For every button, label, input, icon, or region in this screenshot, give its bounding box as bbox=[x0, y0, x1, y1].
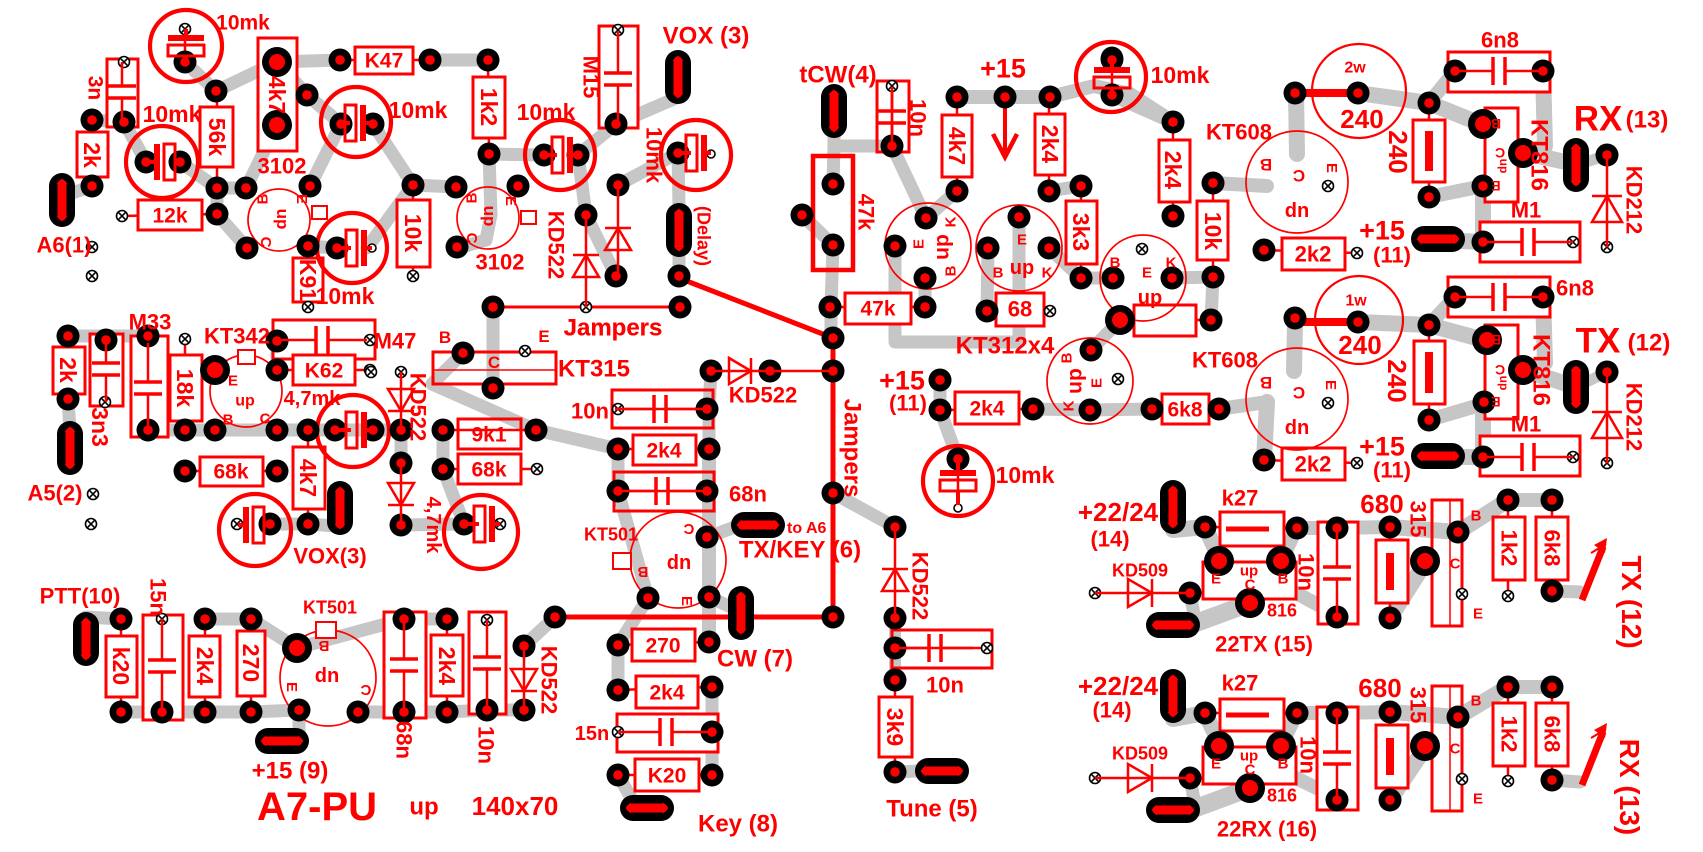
wire bbox=[673, 252, 686, 276]
svg-text:+15: +15 bbox=[980, 53, 1026, 83]
wire bbox=[834, 126, 892, 146]
svg-text:240: 240 bbox=[1382, 359, 1412, 402]
pad +22/24(14) bbox=[1160, 669, 1186, 723]
base mark 3102 bbox=[312, 206, 327, 219]
pad bbox=[110, 701, 133, 724]
pad bbox=[266, 419, 289, 442]
pad bbox=[1039, 86, 1062, 109]
fuse k27 bbox=[1220, 699, 1284, 731]
hole bbox=[1090, 588, 1101, 599]
wire bbox=[1296, 93, 1297, 154]
component lead bbox=[618, 408, 707, 411]
svg-text:680: 680 bbox=[1360, 489, 1403, 519]
component lead bbox=[956, 97, 959, 191]
svg-text:E: E bbox=[910, 239, 927, 249]
pad bbox=[432, 419, 455, 442]
pad bbox=[1326, 789, 1349, 812]
component lead bbox=[1551, 500, 1554, 591]
pad bbox=[994, 86, 1017, 109]
svg-text:KD522: KD522 bbox=[729, 383, 797, 408]
resistor 2k4 bbox=[189, 636, 220, 697]
pad bbox=[1497, 676, 1520, 699]
svg-text:up: up bbox=[315, 666, 339, 688]
pad bbox=[200, 355, 230, 385]
pad bbox=[266, 330, 289, 353]
svg-text:C: C bbox=[360, 681, 371, 698]
svg-text:68k: 68k bbox=[213, 460, 248, 483]
wire bbox=[578, 155, 586, 215]
pad bbox=[533, 144, 556, 167]
pad bbox=[205, 80, 228, 103]
component lead bbox=[1428, 325, 1431, 420]
svg-text:K: K bbox=[1042, 264, 1053, 281]
wire bbox=[148, 424, 373, 437]
capacitor 15n bbox=[143, 615, 183, 720]
pad bbox=[419, 49, 442, 72]
svg-text:up: up bbox=[1285, 201, 1309, 223]
resistor 9k1 bbox=[458, 419, 521, 449]
resistor 18k bbox=[170, 355, 202, 421]
pad bbox=[1101, 47, 1124, 72]
svg-text:6n8: 6n8 bbox=[1481, 28, 1519, 53]
pad bbox=[1286, 517, 1309, 540]
resistor 12k bbox=[138, 200, 202, 230]
pad bbox=[607, 174, 630, 197]
pad bbox=[174, 51, 197, 74]
svg-text:1w: 1w bbox=[1345, 293, 1367, 310]
pad bbox=[194, 701, 217, 724]
svg-text:3102: 3102 bbox=[258, 154, 307, 179]
hole bbox=[1457, 589, 1468, 600]
fuse k27 bbox=[1220, 512, 1284, 546]
capacitor symbol bbox=[486, 620, 489, 657]
hole bbox=[1090, 773, 1101, 784]
svg-text:C: C bbox=[1245, 576, 1256, 593]
wire bbox=[1429, 186, 1483, 197]
svg-text:240: 240 bbox=[1340, 104, 1383, 134]
pad bbox=[1508, 355, 1538, 385]
wire bbox=[1552, 780, 1580, 782]
component lead bbox=[617, 30, 620, 124]
svg-text:k27: k27 bbox=[1222, 671, 1259, 696]
hole bbox=[532, 464, 543, 475]
hole bbox=[982, 643, 993, 654]
component lead bbox=[105, 340, 106, 402]
component lead bbox=[91, 120, 94, 186]
svg-text:M1: M1 bbox=[1511, 412, 1542, 437]
diode KD212 bbox=[1592, 412, 1622, 438]
capacitor 10n bbox=[877, 81, 909, 152]
svg-text:B: B bbox=[463, 192, 480, 203]
hole bbox=[495, 519, 506, 530]
svg-text:6k8: 6k8 bbox=[1539, 716, 1564, 753]
svg-text:680: 680 bbox=[1358, 673, 1401, 703]
pad bbox=[174, 419, 197, 442]
svg-text:VOX (3): VOX (3) bbox=[663, 22, 750, 49]
resistor 680 body bbox=[1386, 553, 1394, 590]
svg-text:TX: TX bbox=[1576, 321, 1621, 360]
wire bbox=[86, 617, 121, 619]
pad RX(13) bbox=[1563, 138, 1589, 192]
pad bbox=[1253, 449, 1276, 472]
wire bbox=[586, 215, 616, 276]
wire bbox=[1390, 563, 1425, 618]
svg-text:22RX (16): 22RX (16) bbox=[1217, 817, 1317, 842]
transistor 816 bbox=[1203, 747, 1296, 784]
component lead bbox=[1048, 97, 1051, 191]
hole bbox=[1457, 774, 1468, 785]
hole bbox=[581, 302, 592, 313]
pad bbox=[1284, 82, 1307, 105]
svg-text:2k4: 2k4 bbox=[646, 439, 681, 462]
pad bbox=[822, 327, 845, 350]
svg-text:3k9: 3k9 bbox=[882, 708, 908, 746]
svg-text:A5(2): A5(2) bbox=[27, 481, 82, 506]
pad bbox=[1508, 138, 1538, 168]
pad bbox=[1070, 175, 1093, 198]
svg-text:E: E bbox=[1142, 264, 1152, 281]
resistor 2k4 bbox=[636, 676, 698, 708]
component lead bbox=[443, 429, 536, 432]
component lead bbox=[618, 448, 709, 451]
pad bbox=[169, 151, 192, 174]
jumper link bbox=[1134, 305, 1196, 336]
wire bbox=[373, 124, 413, 185]
pad bbox=[390, 452, 413, 475]
svg-text:TX/KEY (6): TX/KEY (6) bbox=[739, 536, 861, 563]
wire bbox=[413, 185, 456, 187]
base mark KT342 bbox=[238, 350, 255, 364]
pad bbox=[1379, 789, 1402, 812]
wire bbox=[121, 706, 251, 719]
svg-text:E: E bbox=[1322, 380, 1339, 390]
pad bbox=[266, 460, 289, 483]
svg-text:VOX(3): VOX(3) bbox=[293, 544, 366, 569]
svg-text:240: 240 bbox=[1383, 130, 1413, 173]
pad bbox=[1347, 311, 1370, 334]
wire bbox=[1358, 322, 1429, 325]
svg-text:up: up bbox=[1063, 368, 1086, 394]
wire bbox=[1576, 156, 1605, 165]
svg-text:up: up bbox=[1497, 159, 1511, 174]
svg-text:C: C bbox=[488, 353, 500, 372]
pad bbox=[1253, 239, 1276, 262]
pad bbox=[1194, 702, 1217, 725]
pad bbox=[204, 419, 227, 442]
pad bbox=[1379, 607, 1402, 630]
svg-text:B: B bbox=[254, 193, 271, 204]
wire bbox=[1458, 687, 1508, 717]
hole bbox=[180, 334, 191, 345]
pad A5(2) bbox=[57, 421, 83, 475]
component lead bbox=[1111, 60, 1114, 95]
pad bbox=[698, 631, 721, 654]
svg-text:to A6: to A6 bbox=[787, 520, 827, 537]
wire bbox=[618, 598, 648, 645]
svg-text:K91: K91 bbox=[295, 259, 321, 301]
wire bbox=[703, 409, 716, 449]
wire bbox=[1429, 103, 1481, 124]
svg-text:10n: 10n bbox=[905, 99, 930, 137]
hole bbox=[520, 346, 531, 357]
resistor 680 bbox=[1376, 540, 1408, 603]
svg-text:10mk: 10mk bbox=[1151, 62, 1210, 88]
pad bbox=[57, 325, 80, 348]
pad bbox=[1447, 521, 1470, 544]
diode KD522 bbox=[729, 358, 751, 384]
diode KD522 bbox=[573, 255, 599, 277]
component lead bbox=[1336, 713, 1339, 800]
svg-text:E: E bbox=[283, 682, 300, 692]
resistor 240 body bbox=[1425, 352, 1433, 393]
hole bbox=[613, 727, 624, 738]
resistor 240 bbox=[1413, 120, 1445, 182]
wire bbox=[833, 493, 895, 527]
svg-text:270: 270 bbox=[645, 634, 680, 657]
diode KD509 bbox=[1128, 764, 1152, 792]
pad bbox=[701, 764, 724, 787]
pad bbox=[1284, 307, 1307, 330]
pad 22TX(15) bbox=[1146, 612, 1200, 638]
resistor 240 body bbox=[1295, 89, 1358, 97]
wire bbox=[618, 153, 678, 185]
capacitor symbol bbox=[891, 87, 894, 111]
transistor KT501 bbox=[280, 630, 376, 726]
svg-text:CW (7): CW (7) bbox=[717, 645, 793, 672]
pad 22RX(16) bbox=[1146, 797, 1200, 823]
pad VOX(3) bbox=[327, 481, 353, 535]
hole bbox=[87, 242, 98, 253]
wire bbox=[251, 710, 299, 712]
svg-text:C: C bbox=[1450, 740, 1461, 757]
hole bbox=[887, 81, 898, 92]
capacitor 10mk (Delay) bbox=[661, 120, 731, 190]
resistor 56k bbox=[200, 107, 233, 167]
pad bbox=[1286, 702, 1309, 725]
transistor 315 bbox=[1432, 500, 1462, 626]
wire bbox=[404, 706, 447, 719]
pad bbox=[1472, 325, 1502, 355]
resistor 68 bbox=[996, 293, 1044, 326]
pad bbox=[701, 721, 724, 744]
hole bbox=[1568, 237, 1579, 248]
component lead bbox=[1120, 319, 1211, 322]
svg-text:6k8: 6k8 bbox=[1539, 530, 1564, 567]
pad bbox=[297, 513, 320, 536]
wire bbox=[1297, 521, 1337, 535]
pad bbox=[1472, 231, 1495, 254]
pad +15(11) bbox=[1411, 443, 1465, 469]
component lead bbox=[67, 336, 70, 399]
capacitor symbol bbox=[105, 336, 108, 363]
svg-text:B: B bbox=[1058, 352, 1075, 363]
pad bbox=[110, 608, 133, 631]
svg-text:A6(1): A6(1) bbox=[36, 233, 91, 258]
capacitor 15n bbox=[617, 714, 718, 752]
component lead bbox=[1264, 250, 1357, 253]
pad bbox=[299, 175, 322, 198]
wire bbox=[430, 54, 488, 67]
wire bbox=[1429, 404, 1483, 420]
pad bbox=[1200, 309, 1223, 332]
svg-text:KT342: KT342 bbox=[204, 324, 270, 349]
component lead bbox=[895, 647, 987, 650]
svg-text:C: C bbox=[1450, 555, 1461, 572]
pad bbox=[668, 265, 691, 288]
resistor 240 body bbox=[1295, 318, 1358, 326]
wire bbox=[1190, 778, 1195, 805]
diode KD522 lead bbox=[400, 372, 403, 430]
capacitor symbol bbox=[277, 339, 316, 342]
svg-text:PTT(10): PTT(10) bbox=[40, 584, 121, 609]
pad bbox=[296, 84, 319, 107]
component lead bbox=[250, 619, 253, 712]
hole bbox=[613, 404, 624, 415]
pad bbox=[151, 701, 174, 724]
hole bbox=[232, 519, 243, 530]
hole bbox=[180, 24, 191, 35]
svg-text:10n: 10n bbox=[926, 673, 964, 698]
wire bbox=[1337, 712, 1390, 713]
wire bbox=[1475, 402, 1491, 457]
capacitor symbol bbox=[147, 343, 150, 382]
component lead bbox=[1336, 528, 1339, 617]
wire bbox=[432, 353, 536, 430]
svg-text:up: up bbox=[480, 206, 499, 227]
pad bbox=[1102, 267, 1125, 290]
transistor KT816 bbox=[1485, 108, 1518, 202]
pad +15(11) bbox=[1411, 226, 1465, 252]
pad bbox=[1326, 606, 1349, 629]
wire bbox=[1213, 183, 1267, 186]
wire bbox=[678, 153, 679, 206]
resistor k20 bbox=[106, 636, 137, 697]
wire bbox=[1049, 186, 1081, 191]
svg-text:4k7: 4k7 bbox=[944, 127, 970, 165]
pad bbox=[330, 113, 353, 136]
pad bbox=[1202, 266, 1225, 289]
hole bbox=[1137, 244, 1148, 255]
svg-text:15n: 15n bbox=[145, 578, 170, 616]
pad bbox=[881, 135, 904, 158]
wire bbox=[487, 307, 500, 387]
hole bbox=[157, 614, 168, 625]
pad bbox=[1444, 286, 1467, 309]
wire bbox=[1090, 409, 1152, 410]
component lead bbox=[1172, 122, 1175, 216]
pad bbox=[698, 586, 721, 609]
svg-text:C: C bbox=[683, 520, 694, 537]
wire bbox=[217, 182, 246, 195]
transistor KT312 d bbox=[1047, 338, 1133, 424]
svg-text:E: E bbox=[538, 327, 549, 346]
transistor 3102 bbox=[457, 187, 519, 249]
diode KD522 bbox=[882, 569, 908, 591]
wire bbox=[205, 613, 251, 626]
wire bbox=[1281, 528, 1297, 561]
svg-text:10mk: 10mk bbox=[996, 462, 1055, 488]
pad bbox=[95, 329, 118, 352]
wire bbox=[68, 399, 70, 430]
pad +22/24(14) bbox=[1160, 480, 1186, 534]
svg-text:68k: 68k bbox=[471, 458, 506, 481]
pad bbox=[1347, 82, 1370, 105]
wire bbox=[1172, 277, 1213, 278]
pad bbox=[1418, 314, 1441, 337]
component lead bbox=[277, 369, 370, 372]
component lead bbox=[185, 470, 277, 473]
pad bbox=[436, 701, 459, 724]
transistor KT608 bbox=[1246, 131, 1348, 233]
svg-text:up: up bbox=[235, 393, 255, 410]
resistor 47k bbox=[845, 293, 911, 324]
wire bbox=[618, 775, 634, 803]
capacitor 10n bbox=[1318, 522, 1358, 624]
svg-text:47k: 47k bbox=[860, 297, 895, 320]
pad bbox=[436, 608, 459, 631]
component lead bbox=[1080, 186, 1083, 278]
pad bbox=[607, 764, 630, 787]
svg-text:B: B bbox=[1278, 570, 1289, 587]
component lead bbox=[618, 774, 712, 777]
wire bbox=[616, 98, 676, 124]
pad bbox=[696, 526, 719, 549]
capacitor symbol bbox=[1455, 70, 1493, 73]
wire bbox=[1264, 402, 1267, 460]
svg-text:K: K bbox=[942, 216, 959, 227]
pad bbox=[1038, 237, 1061, 260]
svg-text:2k: 2k bbox=[79, 142, 105, 168]
wire bbox=[1296, 593, 1337, 615]
component lead bbox=[891, 86, 894, 146]
svg-text:B: B bbox=[1260, 373, 1272, 392]
capacitor 10mk bbox=[923, 446, 993, 516]
svg-text:E: E bbox=[228, 372, 238, 389]
jumper wire Jampers vertical bbox=[555, 278, 833, 617]
svg-text:C: C bbox=[1293, 383, 1305, 402]
pad bbox=[206, 203, 229, 226]
pad bbox=[113, 111, 136, 134]
svg-text:B: B bbox=[637, 563, 648, 580]
pad bbox=[326, 237, 349, 260]
svg-text:B: B bbox=[942, 265, 959, 276]
resistor K91 bbox=[293, 258, 323, 302]
resistor 1w 240 circle bbox=[1315, 276, 1403, 364]
wire bbox=[612, 645, 625, 690]
pad bbox=[1326, 517, 1349, 540]
resistor 47k bbox=[813, 156, 853, 270]
resistor 2k2 bbox=[1282, 448, 1345, 480]
capacitor symbol bbox=[403, 619, 406, 659]
svg-text:up: up bbox=[1138, 287, 1162, 309]
wire bbox=[1296, 778, 1337, 798]
capacitor 4,7mk bbox=[317, 395, 389, 467]
diode KD509 lead bbox=[1095, 777, 1190, 780]
pad bbox=[453, 513, 476, 536]
resistor 6k8 bbox=[1536, 703, 1568, 766]
wire bbox=[1576, 373, 1605, 387]
pad bbox=[282, 633, 312, 663]
pad bbox=[637, 587, 660, 610]
pad bbox=[1418, 409, 1441, 432]
component lead bbox=[1507, 687, 1510, 781]
pad bbox=[667, 142, 690, 165]
component lead bbox=[161, 619, 164, 712]
wire bbox=[1508, 680, 1552, 694]
svg-text:E: E bbox=[1473, 605, 1483, 622]
component lead bbox=[830, 306, 925, 309]
svg-text:C: C bbox=[1245, 761, 1256, 778]
